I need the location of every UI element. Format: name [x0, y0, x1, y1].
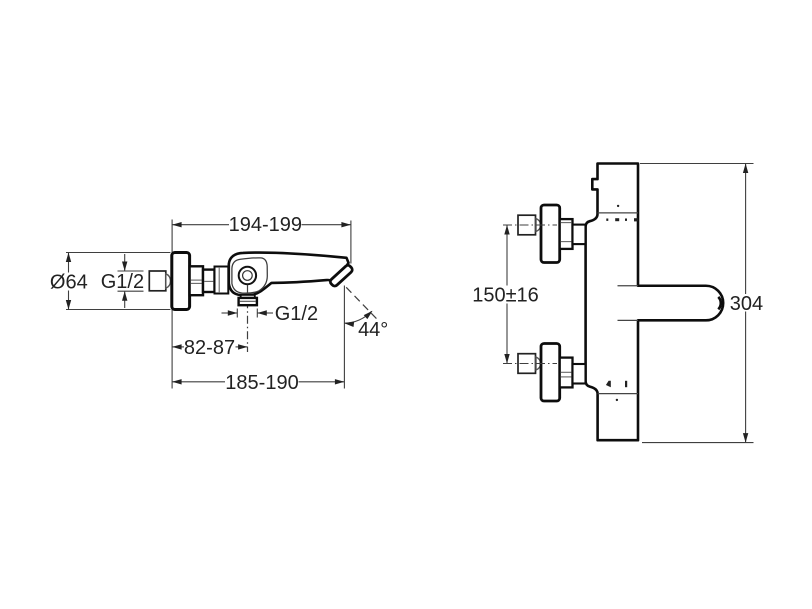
dimension 304	[640, 164, 763, 443]
lower connector square	[518, 354, 536, 374]
angle 44 vertical leg / extension	[343, 286, 345, 389]
lower inlet centerline	[503, 363, 557, 365]
wall flange	[172, 253, 190, 310]
inlet connector square	[149, 271, 166, 291]
spout tip crescent	[718, 297, 721, 309]
spout root line bottom	[618, 319, 639, 321]
upper step	[573, 225, 586, 245]
dimension G1/2 (inlet thread)	[101, 254, 144, 308]
svg-text:82-87: 82-87	[184, 337, 235, 359]
detail dot bottom	[616, 399, 618, 401]
inlet connector tip bump	[166, 274, 171, 288]
lower flange	[541, 344, 560, 402]
upper inlet centerline	[503, 224, 557, 226]
wire: extension line left (wall plane)	[171, 220, 173, 389]
svg-text:44°: 44°	[358, 319, 388, 341]
detail dot top	[617, 205, 619, 207]
svg-text:194-199: 194-199	[229, 214, 302, 236]
step 3	[215, 267, 229, 294]
upper cone	[536, 219, 541, 232]
upper nut	[560, 219, 573, 249]
knob circle outer	[239, 267, 256, 284]
wire: extension line right of 194-199 (spout tip top)	[350, 221, 352, 264]
bottom section top line	[598, 393, 638, 395]
top section bottom line	[598, 212, 639, 214]
svg-text:185-190: 185-190	[225, 372, 298, 394]
lower step	[573, 364, 586, 384]
svg-text:150±16: 150±16	[472, 284, 539, 306]
detail dotted row	[606, 219, 608, 221]
angle 44 arc	[344, 311, 371, 323]
head inner face outline	[232, 258, 267, 293]
svg-text:G1/2: G1/2	[275, 303, 318, 325]
upper flange	[541, 205, 560, 263]
centerline below knob	[247, 285, 249, 352]
outlet collar	[239, 298, 257, 305]
detail marks bottom	[606, 381, 611, 387]
svg-text:304: 304	[730, 293, 763, 315]
svg-text:Ø64: Ø64	[50, 272, 88, 294]
outlet band	[241, 295, 255, 298]
upper connector square	[518, 215, 536, 235]
faucet body and spout	[229, 253, 349, 295]
dimension 150±16	[472, 225, 539, 364]
step 2	[203, 270, 215, 292]
dimension Ø64	[50, 253, 171, 310]
body silhouette with spout	[586, 164, 724, 441]
lower nut	[560, 358, 573, 388]
dimension 185-190	[172, 372, 344, 394]
dimension 194-199	[172, 214, 351, 236]
dimension 82-87	[172, 337, 248, 359]
lower cone	[536, 357, 541, 370]
svg-text:G1/2: G1/2	[101, 271, 144, 293]
dimension G1/2 (outlet)	[222, 303, 319, 325]
spout tip nozzle (rotated rounded rect)	[329, 264, 353, 287]
angle 44 dashed leg	[346, 287, 377, 319]
nut (step 1)	[190, 266, 203, 295]
knob circle inner	[243, 271, 253, 281]
spout root line top	[618, 285, 639, 287]
